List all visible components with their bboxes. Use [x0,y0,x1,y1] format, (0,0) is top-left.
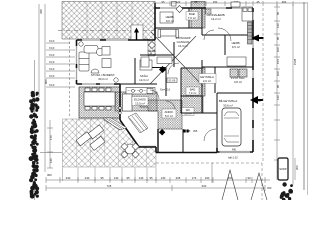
black door diamond [159,66,166,73]
roof overhang dashed [69,37,71,116]
svg-text:9,5 m²: 9,5 m² [232,45,240,49]
tv sofa [158,30,179,38]
svg-text:7,6 m²: 7,6 m² [188,16,196,20]
room tag box 01-06 [160,78,177,92]
svg-text:450: 450 [282,0,287,4]
svg-text:30,6 m²: 30,6 m² [223,104,233,108]
sanitary block hatch [181,68,205,96]
svg-text:f=0,9: f=0,9 [49,68,55,71]
dining table on deck [84,88,115,110]
svg-text:130: 130 [161,176,166,180]
svg-text:SORP: SORP [279,167,287,171]
svg-text:9,8 m²: 9,8 m² [148,53,156,57]
outer walls [77,3,254,153]
vegetation hedge left [29,91,40,199]
right dim numbers [39,9,297,100]
bathroom tile hatch top [191,2,205,29]
svg-text:halli 1:20: halli 1:20 [228,157,238,160]
dimension lines [35,2,308,200]
svg-text:120: 120 [176,0,181,4]
svg-text:14,2 m²: 14,2 m² [211,17,221,21]
svg-text:120: 120 [276,23,280,28]
svg-text:BAÐ: BAÐ [190,88,196,92]
svg-text:100: 100 [276,47,280,52]
svg-text:190: 190 [205,176,210,180]
vegetation bottom right [280,182,293,201]
svg-text:9,6 m²: 9,6 m² [166,19,174,23]
bottom triangles [222,170,267,200]
svg-text:Ga=12,6: Ga=12,6 [160,88,171,92]
kitchen counters [119,89,153,115]
wardrobe strip master bedroom [248,22,253,44]
svg-text:95: 95 [276,11,280,15]
entry black diamond [159,129,166,136]
dim extension lines [63,168,157,182]
svg-text:95: 95 [276,36,280,40]
stairs deck to patio [103,118,127,130]
left level marks [46,43,75,87]
dim ticks bottom [46,163,265,191]
hall diagonals [150,32,203,86]
garage car [222,108,241,146]
washer dryer [230,69,238,77]
svg-text:100: 100 [276,71,280,76]
svg-text:01-06: 01-06 [169,79,176,83]
svg-text:3,8 m²: 3,8 m² [234,80,242,84]
beds [141,7,253,67]
svg-text:170: 170 [49,135,53,140]
svg-text:f=0,9: f=0,9 [49,54,55,57]
svg-text:230: 230 [85,176,90,180]
patio round table [121,143,139,158]
patio lattice bottom-left [63,119,157,167]
svg-text:BÍLGEYMSLA: BÍLGEYMSLA [219,99,237,103]
svg-text:305: 305 [186,129,191,133]
svg-text:438: 438 [39,9,43,14]
right dim ticks [274,7,280,160]
svg-text:f=0,9: f=0,9 [49,75,55,78]
svg-text:140: 140 [139,176,144,180]
svg-text:725: 725 [107,184,112,188]
svg-text:5,0 m²: 5,0 m² [165,114,173,118]
svg-text:120: 120 [276,95,280,100]
svg-text:490: 490 [232,149,237,152]
svg-text:205: 205 [176,176,181,180]
svg-text:173: 173 [192,176,197,180]
svg-text:305: 305 [193,129,198,133]
svg-text:WC: WC [186,108,191,112]
sanitary room labels [182,87,199,116]
roof annex box top-right [231,2,240,7]
interior walls [115,8,253,152]
svg-text:154: 154 [276,59,280,64]
svg-text:95: 95 [126,176,130,180]
window openings (white gap + thin centerline) [77,8,254,153]
svg-text:140: 140 [114,176,119,180]
svg-text:360: 360 [47,173,52,177]
svg-text:f=0,9: f=0,9 [49,40,55,43]
svg-text:90: 90 [247,176,251,180]
svg-text:95: 95 [149,176,153,180]
svg-text:7,0 m²: 7,0 m² [189,91,197,95]
svg-text:200: 200 [295,165,299,170]
svg-text:300: 300 [267,186,272,190]
skylight diamonds [172,2,184,13]
svg-text:2,0 m²: 2,0 m² [203,79,211,83]
loungers [76,123,110,155]
left lower dim line [40,120,62,168]
svg-text:230: 230 [66,176,71,180]
svg-text:95: 95 [276,84,280,88]
top dim numbers [162,0,287,4]
svg-text:f=0,9: f=0,9 [49,47,55,50]
svg-text:150: 150 [213,0,218,4]
svg-text:900: 900 [44,79,48,84]
svg-text:12,3 m²: 12,3 m² [139,78,149,82]
svg-text:140: 140 [49,158,53,163]
svg-text:14,3 m²: 14,3 m² [178,44,188,48]
anddyri entry hatch [115,92,157,111]
dining deck dense hatch [79,87,120,118]
svg-text:f=0,9: f=0,9 [49,84,55,87]
svg-text:30,0 m²: 30,0 m² [98,77,108,81]
room labels [166,15,175,23]
SORP container [278,158,299,180]
svg-text:620: 620 [202,184,207,188]
svg-text:13,5 m²: 13,5 m² [135,102,145,106]
living room furniture [79,42,152,82]
svg-text:95: 95 [100,176,104,180]
stairs entry [128,113,148,133]
top-left roof deck lattice [58,2,155,57]
entrance arrows [251,35,259,42]
svg-text:f=0,9: f=0,9 [49,61,55,64]
dim numbers bottom [66,176,251,188]
door arcs [150,28,231,141]
svg-text:1528: 1528 [293,58,297,65]
